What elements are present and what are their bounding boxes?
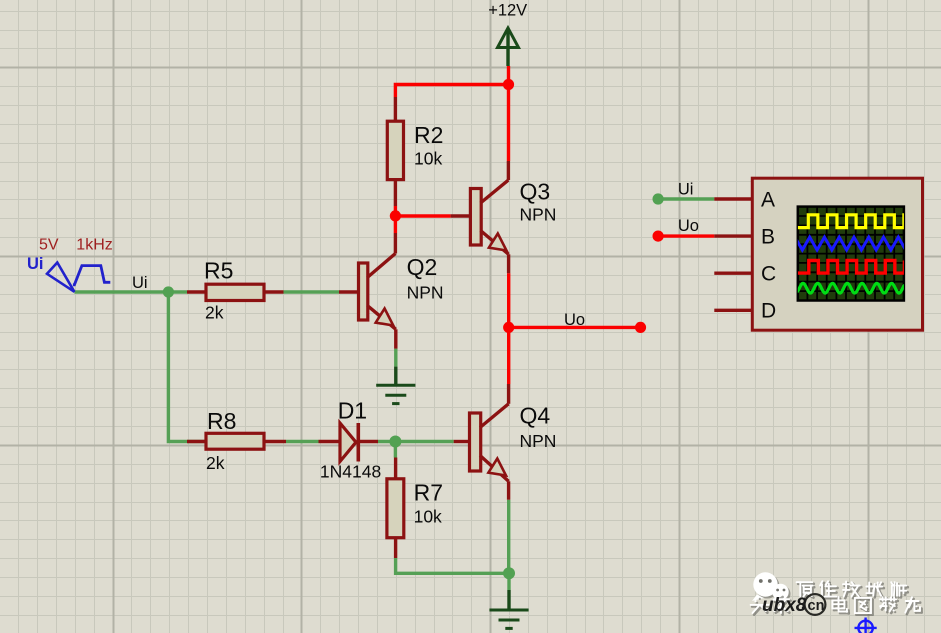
svg-text:R7: R7 — [414, 480, 443, 506]
svg-text:1N4148: 1N4148 — [320, 462, 381, 482]
svg-text:R5: R5 — [204, 258, 233, 284]
svg-text:Uo: Uo — [678, 217, 699, 235]
svg-text:Q4: Q4 — [520, 403, 551, 429]
svg-text:R8: R8 — [207, 408, 236, 434]
svg-text:B: B — [761, 225, 775, 248]
svg-text:R2: R2 — [414, 122, 443, 148]
svg-text:NPN: NPN — [520, 205, 557, 225]
svg-text:Q2: Q2 — [407, 254, 438, 280]
svg-text:Ui: Ui — [27, 255, 44, 273]
svg-text:Ui: Ui — [132, 274, 148, 292]
svg-text:Ui: Ui — [678, 181, 694, 199]
svg-text:C: C — [761, 263, 776, 286]
svg-text:+12V: +12V — [488, 2, 527, 20]
svg-text:2k: 2k — [206, 453, 225, 473]
svg-text:D1: D1 — [338, 398, 367, 424]
svg-text:D: D — [761, 300, 776, 323]
svg-text:NPN: NPN — [407, 283, 444, 303]
svg-text:A: A — [761, 188, 775, 211]
svg-text:ubx8: ubx8 — [762, 595, 807, 616]
svg-text:1kHz: 1kHz — [76, 237, 112, 254]
svg-text:2k: 2k — [205, 303, 224, 323]
svg-text:10k: 10k — [414, 149, 442, 169]
svg-text:Uo: Uo — [564, 311, 585, 329]
svg-text:cn: cn — [808, 598, 825, 614]
svg-text:Q3: Q3 — [520, 179, 551, 205]
svg-text:NPN: NPN — [520, 431, 557, 451]
svg-text:10k: 10k — [414, 507, 442, 527]
svg-text:5V: 5V — [39, 237, 59, 254]
